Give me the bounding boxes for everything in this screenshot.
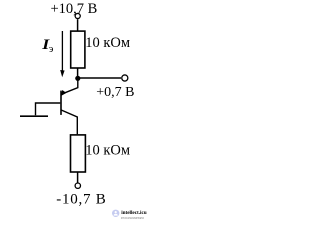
svg-text:10 кОм: 10 кОм xyxy=(85,35,130,51)
svg-text:интеллектуальный портал: интеллектуальный портал xyxy=(121,216,144,219)
svg-text:э: э xyxy=(49,44,54,55)
svg-text:intellect.icu: intellect.icu xyxy=(121,210,147,216)
svg-text:+0,7 В: +0,7 В xyxy=(96,85,134,100)
svg-text:-10,7 В: -10,7 В xyxy=(56,191,106,207)
svg-text:10 кОм: 10 кОм xyxy=(85,142,130,158)
svg-text:+10,7 В: +10,7 В xyxy=(51,1,98,17)
